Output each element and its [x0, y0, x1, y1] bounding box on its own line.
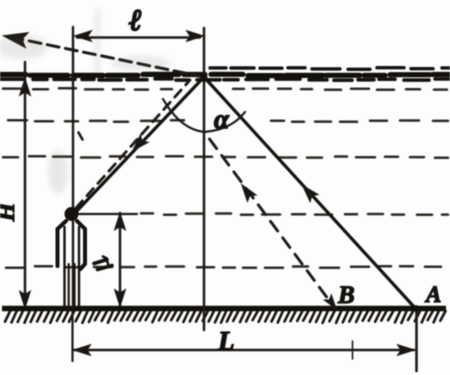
svg-text:L: L: [217, 326, 235, 356]
svg-text:ℓ: ℓ: [129, 4, 142, 37]
svg-text:A: A: [424, 282, 441, 307]
svg-text:α: α: [214, 104, 230, 134]
svg-text:B: B: [337, 282, 355, 309]
svg-text:H: H: [0, 201, 20, 222]
